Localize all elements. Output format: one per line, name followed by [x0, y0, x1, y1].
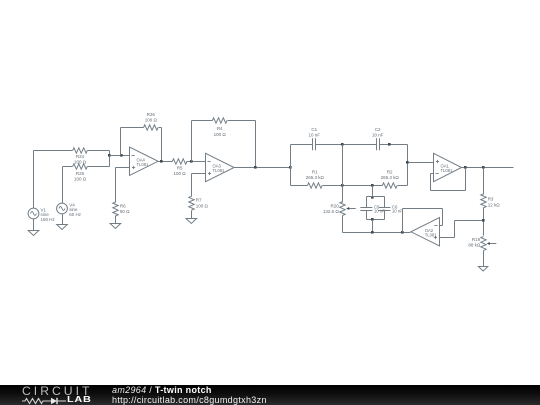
svg-text:100 Ω: 100 Ω: [214, 132, 227, 137]
logo resistor zigzag and diode: [22, 399, 51, 404]
wire row R25 left: [63, 166, 73, 168]
ground below R7: [186, 219, 197, 224]
CircuitLab logo: [22, 385, 94, 405]
svg-text:10 nF: 10 nF: [309, 133, 321, 138]
wire centre leg vertical: [342, 145, 344, 203]
svg-text:100 Ω: 100 Ω: [196, 203, 209, 208]
resistor R4: [212, 118, 227, 123]
wire R7 top vertical: [191, 174, 193, 197]
wire OA4 inverting input: [110, 155, 130, 157]
svg-text:TL081: TL081: [441, 168, 454, 173]
svg-text:R25: R25: [76, 171, 85, 176]
wire OA4 feedback left vertical: [120, 128, 122, 156]
footer bar: [0, 385, 540, 405]
svg-text:160 Hz: 160 Hz: [41, 217, 56, 222]
wire C5 branch top: [366, 197, 368, 208]
V4 labels: [69, 202, 82, 217]
wire twin-T right vertical: [407, 145, 409, 186]
resistor R5: [172, 159, 187, 164]
wire OA2 to R3/R19 node: [455, 220, 484, 222]
svg-text:100 Ω: 100 Ω: [74, 160, 87, 165]
resistor R25: [73, 164, 88, 169]
node OA3 feedback tap: [190, 160, 193, 163]
wire C5C6 rect top edge: [367, 196, 385, 198]
op-amp OA2: [411, 218, 440, 246]
wire R7 bottom: [191, 211, 193, 219]
wire C6 branch top: [384, 197, 386, 208]
svg-text:TL081: TL081: [137, 162, 150, 167]
voltage source V1: [28, 208, 39, 219]
R19 labels: [468, 237, 481, 248]
potentiometer R20: [340, 202, 356, 216]
R26 labels: [145, 112, 158, 123]
R6 labels: [120, 203, 130, 214]
svg-text:R26: R26: [147, 112, 156, 117]
wire OA2 feedback top: [403, 208, 443, 210]
wire OA1 noninverting input: [408, 162, 434, 164]
wire C5C6 bottom vertical: [372, 220, 374, 233]
node OA2 output/feedback: [401, 231, 404, 234]
svg-text:R19: R19: [472, 237, 481, 242]
wire OA3 feedback right vertical: [255, 121, 257, 168]
resistor R1: [308, 183, 323, 188]
svg-text:R4: R4: [217, 126, 223, 131]
op-amp OA1: [434, 153, 462, 181]
wire V4 bottom: [62, 214, 64, 225]
ground below R19: [478, 267, 487, 272]
node after C2: [388, 143, 391, 146]
svg-text:R24: R24: [76, 154, 85, 159]
svg-text:50 Ω: 50 Ω: [120, 209, 130, 214]
wire bottom row left: [291, 185, 308, 187]
svg-text:R2: R2: [387, 170, 393, 175]
R2 labels: [381, 170, 400, 181]
node R3 tap: [482, 166, 485, 169]
wire bottom bus: [343, 232, 411, 234]
R24 labels: [74, 154, 87, 165]
wire OA4 noninverting input: [116, 167, 130, 169]
wire top row right: [380, 144, 408, 146]
wire OA1 feedback left vertical: [430, 174, 432, 191]
C6 labels: [392, 204, 403, 213]
node C5/C6 tap: [371, 184, 374, 187]
wire OA3 feedback top left: [192, 120, 213, 122]
node top row centre tap: [341, 143, 344, 146]
svg-text:R20: R20: [331, 203, 340, 208]
wire R3 bottom: [483, 208, 485, 236]
wire C5 branch bottom: [366, 211, 368, 220]
svg-text:TL081: TL081: [213, 168, 226, 173]
wire twin-T left vertical: [290, 145, 292, 186]
node junction R24/R25 to OA4 inverting input: [108, 154, 111, 157]
R3 labels: [488, 197, 501, 208]
wire OA4 feedback top right: [159, 127, 162, 129]
capacitor C1: [313, 138, 316, 150]
wire R6 top vertical: [115, 168, 117, 203]
wire OA3 feedback top right: [228, 120, 256, 122]
svg-text:100 Ω: 100 Ω: [174, 171, 187, 176]
ground below V4: [57, 225, 68, 230]
wire top row left: [291, 144, 313, 146]
resistor R26: [144, 125, 159, 130]
wire OA4 output: [158, 161, 173, 163]
node C5C6 rect bottom: [371, 218, 374, 221]
svg-text:60 Hz: 60 Hz: [69, 212, 82, 217]
wire OA2 input riser: [454, 221, 456, 238]
node OA3 output/feedback: [254, 166, 257, 169]
ground below V1: [28, 231, 39, 236]
wire OA1 inverting input: [431, 173, 434, 175]
footer title text: [112, 386, 267, 404]
wire V1 bottom: [33, 219, 35, 231]
op-amp OA4: [130, 147, 159, 175]
svg-text:132.6 Ω: 132.6 Ω: [323, 209, 340, 214]
wire row R24 left: [34, 150, 73, 152]
R4 labels: [214, 126, 227, 137]
wire OA4 feedback right vertical: [161, 128, 163, 162]
R20 labels: [323, 203, 340, 214]
resistor R7: [189, 196, 194, 210]
svg-text:C2: C2: [375, 127, 381, 132]
wire row R24 right: [88, 150, 110, 152]
node bottom bus C5C6: [371, 231, 374, 234]
svg-text:R6: R6: [120, 203, 126, 208]
wire row R25 right: [88, 166, 110, 168]
node C5C6 rect top: [371, 196, 374, 199]
wire OA2 feedback left vertical: [402, 209, 404, 233]
svg-text:265.3 kΩ: 265.3 kΩ: [306, 175, 325, 180]
op-amp OA3: [206, 153, 235, 181]
wire vertical join R24/R25: [109, 151, 111, 167]
svg-text:88 kΩ: 88 kΩ: [468, 243, 481, 248]
node R3/R19/OA2: [482, 219, 485, 222]
svg-text:100 Ω: 100 Ω: [74, 177, 87, 182]
resistor R2: [382, 183, 397, 188]
wire C5C6 top vertical: [372, 186, 374, 197]
node twin-T input: [289, 166, 292, 169]
capacitor C5: [360, 208, 372, 211]
svg-text:R7: R7: [196, 198, 202, 203]
node twin-T output tap: [406, 161, 409, 164]
svg-text:265.3 kΩ: 265.3 kΩ: [381, 175, 400, 180]
wire R20 bottom: [342, 216, 344, 233]
wire V4 top: [62, 167, 64, 204]
ground below R6: [110, 224, 121, 229]
wire OA1 feedback right vertical: [465, 168, 467, 191]
resistor R24: [73, 148, 88, 153]
wire OA1 output: [462, 167, 514, 169]
R1 labels: [306, 170, 325, 181]
resistor R3: [481, 194, 486, 208]
svg-text:R3: R3: [488, 197, 494, 202]
C2 labels: [372, 127, 384, 138]
R7 labels: [196, 198, 209, 209]
wire top row middle: [316, 144, 377, 146]
wire OA2 noninverting input: [440, 237, 455, 239]
node feedback tap OA4: [120, 154, 123, 157]
svg-text:R5: R5: [177, 166, 183, 171]
wire OA3 output: [235, 167, 291, 169]
svg-text:10 nF: 10 nF: [392, 208, 403, 213]
C1 labels: [309, 127, 321, 138]
wire V1 top: [33, 151, 35, 209]
svg-text:100 Ω: 100 Ω: [145, 118, 158, 123]
wire R3 top vertical: [483, 168, 485, 195]
node OA4 output/feedback: [160, 160, 163, 163]
capacitor C6: [378, 208, 390, 211]
svg-text:R1: R1: [312, 170, 318, 175]
R5 labels: [174, 166, 187, 177]
wire OA3 noninverting input: [192, 173, 206, 175]
svg-text:10 nF: 10 nF: [372, 133, 384, 138]
C5 labels: [374, 204, 385, 213]
wire OA3 feedback left vertical: [191, 121, 193, 162]
svg-text:12 kΩ: 12 kΩ: [488, 202, 501, 207]
resistor R6: [113, 202, 118, 216]
wire C6 branch bottom: [384, 211, 386, 220]
wire OA2 inverting input: [440, 225, 443, 227]
node bottom row centre tap: [341, 184, 344, 187]
wire R19 bottom: [483, 251, 485, 267]
wire R6 bottom: [115, 216, 117, 224]
V1 labels: [41, 207, 56, 222]
wire bottom row right: [398, 185, 408, 187]
wire OA4 feedback top left: [121, 127, 144, 129]
node OA1 output/feedback: [464, 166, 467, 169]
wire C5C6 rect bottom edge: [367, 219, 385, 221]
wire OA1 feedback bottom: [431, 190, 466, 192]
potentiometer R19: [481, 236, 497, 250]
wire R5 to OA3 inverting input: [187, 161, 206, 163]
capacitor C2: [377, 138, 380, 150]
voltage source V4: [57, 203, 68, 214]
R25 labels: [74, 171, 87, 182]
svg-text:C1: C1: [311, 127, 317, 132]
svg-text:TL081: TL081: [425, 232, 438, 237]
wire OA2 feedback right vertical: [442, 209, 444, 226]
wire bottom row middle: [323, 185, 383, 187]
